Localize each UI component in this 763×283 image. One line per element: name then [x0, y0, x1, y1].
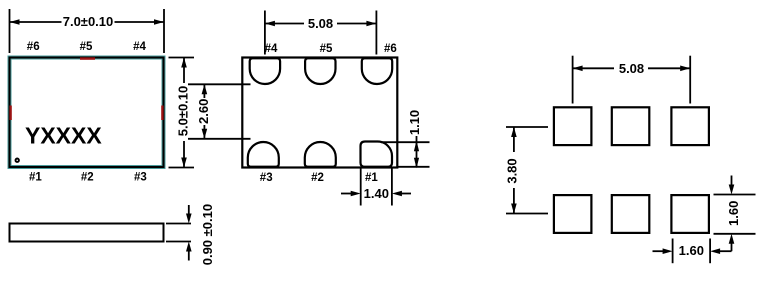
dimension 5.0±0.10 extension line top [169, 57, 195, 59]
dimension 1.60 bottom extension line left [672, 239, 674, 264]
dimension 5.0±0.10 line top part [183, 58, 185, 84]
svg-text:3.80: 3.80 [505, 158, 520, 183]
svg-text:#3: #3 [134, 172, 147, 184]
package body outline (top view) [10, 58, 164, 168]
svg-text:5.08: 5.08 [619, 61, 644, 76]
pad #2 (bottom middle) [305, 142, 336, 167]
package body outline (top view) teal underlay [10, 58, 164, 168]
arrowhead down [511, 204, 517, 214]
pin 1 indicator dot [16, 159, 19, 162]
land pad row1 col1 [554, 107, 592, 145]
svg-text:#2: #2 [311, 172, 324, 184]
arrow up to bottom line with elbow [731, 241, 733, 251]
dimension 5.08 (land) line left part [573, 67, 614, 69]
dimension 2.60 line top part [203, 84, 205, 98]
dimension 5.08 (bottom view) extension line left [264, 11, 266, 55]
dimension 1.40 extension line right [391, 168, 393, 206]
dimension 7.0±0.10 line right part [115, 21, 165, 23]
arrowhead up [414, 141, 419, 152]
svg-text:#2: #2 [81, 172, 94, 184]
land pad row2 col2 [612, 195, 650, 233]
pad #1 (bottom right, index pad) [361, 142, 393, 167]
land pad row1 col3 [671, 107, 709, 145]
arrowhead right [366, 21, 376, 27]
dimension 5.0±0.10 extension line bottom [169, 167, 195, 169]
dimension 1.60 right extension line top [714, 194, 756, 196]
svg-text:5.08: 5.08 [308, 16, 333, 31]
svg-text:5.0±0.10: 5.0±0.10 [176, 86, 191, 137]
castellation mark left edge [9, 106, 11, 121]
dimension 5.08 (land) extension line right [689, 56, 691, 104]
svg-text:1.10: 1.10 [407, 110, 422, 135]
dimension 3.80 line bottom part [513, 188, 515, 214]
arrowhead right [680, 66, 690, 72]
dimension 2.60 line bottom part [203, 125, 205, 139]
svg-text:#3: #3 [260, 172, 273, 184]
svg-text:0.90 ±0.10: 0.90 ±0.10 [200, 204, 215, 265]
package body outline (bottom view) [242, 58, 397, 168]
arrow down to top line [731, 176, 733, 188]
land pad row2 col3 [671, 195, 709, 233]
dimension 5.0±0.10 line bottom part [183, 141, 185, 168]
dimension 5.08 line left part [265, 23, 304, 25]
svg-text:YXXXX: YXXXX [25, 123, 102, 149]
dimension 7.0±0.10 extension line right [163, 9, 165, 53]
land pad row1 col2 [612, 107, 650, 145]
svg-text:#1: #1 [365, 172, 378, 184]
dimension 1.40 extension line left [360, 168, 362, 206]
svg-text:#4: #4 [133, 41, 146, 53]
svg-text:#4: #4 [265, 43, 278, 55]
dimension 5.08 extension line right [375, 11, 377, 55]
dimension 1.10 extension line top [381, 141, 430, 143]
land pad row2 col1 [554, 195, 592, 233]
svg-text:#5: #5 [320, 43, 333, 55]
svg-text:#6: #6 [384, 43, 397, 55]
dimension 1.60 bottom extension line right [709, 239, 711, 264]
pad #3 (bottom left) [248, 142, 279, 167]
svg-text:1.60: 1.60 [726, 201, 741, 226]
svg-text:2.60: 2.60 [196, 99, 211, 124]
arrowhead up [181, 58, 187, 68]
svg-text:#5: #5 [80, 41, 93, 53]
svg-text:#6: #6 [27, 41, 40, 53]
dimension 5.08 (land) line right part [648, 67, 690, 69]
arrowhead left [573, 66, 583, 72]
arrowhead down [202, 129, 208, 139]
svg-text:1.60: 1.60 [679, 243, 704, 258]
pad #6 (top right) [362, 58, 392, 84]
svg-text:7.0±0.10: 7.0±0.10 [63, 14, 114, 29]
dimension 2.60 extension line bottom [188, 138, 251, 140]
dimension 1.10 line [416, 136, 418, 167]
arrow pointing left with tail to elbow [718, 250, 732, 252]
arrowhead up [511, 127, 517, 137]
dimension 3.80 extension line top [506, 126, 548, 128]
arrow pointing right [653, 250, 665, 252]
dimension 3.80 extension line bottom [506, 213, 548, 215]
dimension 1.10 extension line bottom [397, 166, 429, 168]
leader line bottom [166, 241, 191, 243]
svg-text:#1: #1 [29, 172, 42, 184]
dimension 2.60 extension line top [188, 83, 251, 85]
arrowhead up [202, 84, 208, 94]
arrow pointing left [400, 193, 411, 195]
arrow down to top [188, 205, 190, 216]
svg-text:1.40: 1.40 [364, 186, 389, 201]
arrowhead right [154, 19, 164, 25]
dimension 1.60 right extension line bottom [714, 233, 756, 235]
dimension 5.08 line right part [337, 23, 376, 25]
dimension 3.80 line top part [513, 127, 515, 152]
leader line top [166, 223, 191, 225]
arrowhead down [181, 158, 187, 168]
pad #5 (top middle) [305, 58, 335, 84]
pad #4 (top left) [250, 58, 280, 84]
castellation mark top edge [80, 57, 95, 59]
arrowhead left [10, 19, 20, 25]
package body outline (side view) [10, 224, 164, 242]
arrow up to bottom [188, 250, 190, 261]
castellation mark right edge [161, 106, 163, 121]
arrow pointing right [341, 193, 352, 195]
dimension 7.0±0.10 extension line left [9, 9, 11, 53]
dimension 5.08 (land) extension line left [572, 56, 574, 104]
dimension 7.0±0.10 line left part [10, 21, 62, 23]
arrowhead down [414, 158, 419, 169]
arrowhead left [265, 21, 275, 27]
